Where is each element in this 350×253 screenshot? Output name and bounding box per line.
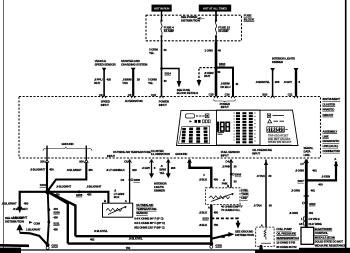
svg-text:B: B — [104, 199, 106, 203]
svg-text:TAN: TAN — [122, 81, 127, 85]
wire stub ground left 2 — [85, 146, 87, 160]
wire stub ground left 1 — [46, 146, 48, 160]
wire high beam branch right from S310 — [216, 68, 233, 96]
wire oil pressure from cluster — [265, 160, 267, 228]
svg-text:C4: C4 — [225, 159, 229, 163]
arrow from VSS — [102, 68, 106, 72]
wire .8 PPL/WHT VSS to cluster — [103, 70, 105, 96]
svg-text:C4 VIN B: C4 VIN B — [309, 217, 320, 221]
svg-text:DK BLU: DK BLU — [220, 85, 230, 89]
svg-text:DIMMER: DIMMER — [154, 189, 166, 193]
svg-text:.8 TAN: .8 TAN — [253, 203, 261, 207]
ALDL note — [323, 129, 341, 153]
ground G201 — [46, 243, 59, 249]
terminal C4 — [225, 159, 233, 163]
wire serial data from cluster C7 — [305, 160, 308, 228]
arrow dimmer wire 1 — [270, 68, 275, 72]
display caption lines — [268, 133, 292, 144]
ground G302 — [209, 242, 222, 248]
svg-text:400: 400 — [318, 182, 323, 186]
svg-text:ALTERNATOR: ALTERNATOR — [125, 99, 144, 103]
label .8 ORN/WHT on dashed branch — [204, 70, 221, 78]
label 3 ORN/YEL 30 lower — [148, 78, 167, 85]
arrow illumination 2 — [166, 173, 171, 178]
svg-text:.8 BLK/YEL: .8 BLK/YEL — [94, 229, 108, 233]
svg-text:.8 BLK: .8 BLK — [199, 210, 208, 214]
terminal marks ground pair — [40, 160, 88, 164]
label .8 ORN 400 branch — [318, 174, 330, 186]
svg-text:420: 420 — [107, 77, 112, 81]
svg-text:CLUSTER: CLUSTER — [323, 102, 337, 106]
scan margin bottom-left corner — [0, 248, 21, 253]
arrow dashed branch — [197, 80, 202, 87]
wire fuel sensor from C4 — [230, 160, 232, 188]
svg-text:S209: S209 — [53, 211, 60, 215]
svg-text:750: 750 — [126, 246, 131, 250]
node S201 junction blob — [40, 183, 51, 194]
ECM pin row 2 — [299, 222, 322, 226]
label .8 BLK/WHT 450 wire1 — [30, 167, 54, 171]
speedometer digits 188 — [217, 122, 229, 132]
see fuse block details note — [177, 88, 199, 95]
label SPEED INPUT — [101, 100, 110, 107]
bargraph column C — [249, 112, 253, 143]
label 40 ohms note — [221, 204, 243, 212]
svg-text:S211: S211 — [53, 221, 60, 225]
svg-text:C15: C15 — [209, 92, 214, 96]
hot in run header box — [152, 5, 172, 12]
svg-text:C8: C8 — [124, 159, 128, 163]
label .8 ORN 461 mid — [291, 188, 315, 192]
wire dashed branch ground dist — [211, 218, 238, 223]
bargraph ticks right — [254, 113, 256, 141]
wire temp sensor right from cluster — [129, 160, 131, 203]
terminal C16 — [225, 92, 235, 98]
svg-text:906: 906 — [79, 160, 84, 164]
label .8 BLK/YEL 452 — [90, 229, 108, 241]
wire 3 ORN/YEL from fuse4 to cluster C12 — [161, 42, 163, 96]
svg-text:450: 450 — [53, 215, 58, 219]
wire S201 chain down — [48, 192, 49, 244]
svg-text:.8 BLK: .8 BLK — [199, 178, 208, 182]
terminal C8 temp — [124, 159, 131, 163]
brace under C15 C16 — [214, 99, 236, 102]
label .8 BRN/YEL 906 — [159, 164, 175, 175]
svg-text:OIL PRESSURE: OIL PRESSURE — [276, 231, 296, 235]
arrow see ground distribution upper — [17, 207, 22, 213]
wire S201 right horizontal to temp sensor — [48, 192, 109, 203]
fuse block dashed box — [146, 15, 242, 41]
label .8 BLK/WHT above right horiz — [55, 184, 71, 196]
label .8 LT GRN/BLK 926 — [106, 168, 137, 172]
scan margin bottom-mid-right — [255, 250, 301, 253]
label 3 ORN/YEL 30 upper — [149, 48, 167, 55]
bargraph ticks left — [233, 113, 235, 140]
svg-text:S206: S206 — [76, 193, 83, 197]
label IGNITION INPUT under C12 — [159, 100, 170, 107]
terminal C11a — [288, 92, 298, 98]
svg-text:0123456: 0123456 — [267, 127, 285, 132]
node S206 — [76, 190, 83, 196]
svg-text:1 BLK/WHT: 1 BLK/WHT — [26, 228, 41, 232]
temp sensor pins B A — [104, 199, 128, 203]
fuel gauge segmented columns — [179, 126, 210, 144]
svg-text:450: 450 — [214, 178, 219, 182]
label GROUND left with brace — [43, 142, 92, 151]
svg-text:750: 750 — [214, 223, 219, 227]
svg-text:1 ORN: 1 ORN — [205, 49, 213, 53]
page border bottom — [0, 249, 350, 251]
fuse F13 value label — [218, 25, 230, 33]
telltale icon right 1 — [267, 114, 284, 117]
svg-text:S201: S201 — [40, 183, 47, 187]
wire 1 ORN from fuse13 — [215, 42, 218, 96]
svg-text:G302: G302 — [215, 243, 222, 247]
wire cluster ground 1 down to S201 — [46, 162, 48, 191]
see power distribution arrow — [197, 17, 202, 20]
interior lights dimmer note lower — [154, 181, 168, 192]
svg-text:A8: A8 — [299, 222, 303, 226]
node S310 lower — [302, 202, 316, 206]
fuse block label — [244, 14, 255, 22]
terminal C13 — [150, 160, 154, 163]
label .8 BLK/WHT after S206 — [86, 184, 101, 196]
svg-text:LINE: LINE — [304, 153, 310, 157]
scan margin bottom-right — [299, 248, 350, 253]
svg-text:S213: S213 — [202, 217, 209, 221]
svg-text:YEL: YEL — [149, 51, 155, 55]
svg-text:S306: S306 — [235, 173, 242, 177]
svg-text:SENSOR: SENSOR — [136, 211, 148, 215]
svg-text:INPUT: INPUT — [159, 103, 167, 107]
svg-text:.8 BLK: .8 BLK — [199, 223, 208, 227]
svg-text:WHT: WHT — [94, 81, 101, 85]
arrow from below ground distribution — [17, 225, 22, 233]
svg-text:BLOCK DETAILS: BLOCK DETAILS — [177, 91, 199, 95]
wire S201 left then down to ground dist arrow — [20, 192, 48, 208]
svg-text:DISTRIBUTION: DISTRIBUTION — [5, 219, 24, 223]
label .8 LT GRN/BLK left wire — [114, 188, 125, 199]
svg-text:461: 461 — [311, 188, 316, 192]
svg-text:INSTRUMENT: INSTRUMENT — [323, 97, 341, 101]
fuel tank sender symbol — [209, 193, 234, 201]
svg-text:.8 BLK/YEL: .8 BLK/YEL — [129, 236, 143, 240]
svg-text:1 BLK/WHT: 1 BLK/WHT — [13, 215, 28, 219]
label CLUSTER ILLUMINATION — [151, 149, 170, 156]
label .8 PPL/WHT 420 — [94, 77, 111, 84]
svg-text:852 OHMS 132° F (56° C): 852 OHMS 132° F (56° C) — [134, 225, 164, 229]
svg-text:LINE: LINE — [323, 134, 329, 138]
gauge icon dashes row — [196, 115, 205, 117]
label SERIAL DATA LINE — [304, 146, 314, 157]
svg-text:YEL: YEL — [159, 171, 165, 175]
telltale icon right 2 warning triangle — [268, 120, 284, 123]
label .8 BLK/WHT 450 left branch — [2, 202, 29, 206]
svg-text:15 AMP: 15 AMP — [164, 29, 174, 33]
svg-text:GROUND: GROUND — [62, 142, 74, 146]
fuel pump note — [276, 227, 298, 249]
thermistor symbol — [106, 206, 127, 214]
svg-text:DIMMER: DIMMER — [272, 60, 284, 64]
svg-text:S307: S307 — [298, 179, 305, 183]
svg-text:MEASURE RESISTANCE: MEASURE RESISTANCE — [315, 244, 346, 248]
interior lights dimmer label — [272, 57, 295, 65]
label .8 BRN/DK BLU 41 — [220, 82, 238, 89]
node S308 — [121, 178, 141, 182]
terminal C7 — [300, 160, 308, 167]
wire fuse13 inside block — [215, 12, 217, 22]
svg-text:.8 TAN: .8 TAN — [257, 174, 265, 178]
node S211 — [29, 221, 60, 226]
svg-text:CIRCUIT: CIRCUIT — [323, 113, 334, 117]
ECM note — [315, 227, 346, 248]
instrument cluster printed circuit note — [323, 97, 341, 117]
terminal F — [188, 160, 206, 178]
svg-text:COM: COM — [34, 221, 41, 225]
svg-text:S310: S310 — [309, 202, 316, 206]
svg-text:OUTSIDE AIR TEMPERATURE: OUTSIDE AIR TEMPERATURE — [113, 150, 151, 154]
terminal C12 — [151, 93, 163, 98]
label .8 BLK 450 lower — [199, 210, 219, 214]
wire cluster ground thick elbow — [190, 160, 212, 188]
svg-text:.8 ORN: .8 ORN — [291, 188, 300, 192]
node S314 — [160, 67, 171, 75]
arrow illumination 1 — [149, 173, 154, 178]
svg-text:ASSEMBLY: ASSEMBLY — [323, 129, 338, 133]
pump ground dot and arrow — [259, 245, 263, 253]
wire branch S314 to fuse details arrow — [162, 69, 180, 82]
outside air temperature sensor note — [134, 203, 165, 230]
node S310 top — [215, 62, 226, 69]
page border left — [3, 0, 5, 253]
svg-text:926: 926 — [132, 168, 137, 172]
wire cluster ground 2 elbow to S201 — [48, 162, 86, 191]
wire branch to ALDL — [306, 162, 336, 181]
fuel pump sender dashed box — [256, 227, 274, 247]
label .8 BRN TAN 25 — [122, 77, 140, 84]
terminal A15 — [166, 160, 170, 163]
svg-text:450: 450 — [88, 168, 93, 172]
svg-text:B: B — [227, 184, 229, 188]
label OUTSIDE AIR TEMPERATURE INPUT — [107, 150, 151, 158]
fuse F13 symbol — [215, 20, 217, 38]
speedometer units label — [218, 133, 225, 135]
label 8 BRN/YEL 908 — [256, 80, 280, 84]
wire .8 BRN/YEL dimmer — [272, 71, 274, 96]
node S213 — [202, 217, 212, 221]
svg-text:.8 ORN: .8 ORN — [295, 169, 304, 173]
svg-text:BLOCK: BLOCK — [244, 17, 255, 21]
svg-text:450: 450 — [49, 168, 54, 172]
odometer digit boxes — [267, 127, 288, 133]
svg-text:CONNECTOR: CONNECTOR — [323, 149, 341, 153]
svg-text:DIAGNOSTIC: DIAGNOSTIC — [323, 139, 341, 143]
svg-text:.8 BLK/WHT: .8 BLK/WHT — [13, 207, 28, 211]
svg-text:DLC WIRE: DLC WIRE — [309, 222, 322, 226]
svg-text:3.5 K OHMS 80° F (26° C): 3.5 K OHMS 80° F (26° C) — [134, 221, 165, 225]
node S209 — [47, 207, 60, 215]
svg-text:S310: S310 — [219, 62, 226, 66]
svg-text:HOT AT ALL TIMES: HOT AT ALL TIMES — [203, 7, 227, 11]
display center panel box — [217, 110, 261, 145]
svg-text:UNIT: UNIT — [241, 196, 248, 200]
svg-text:.8 BLK/WHT: .8 BLK/WHT — [2, 202, 17, 206]
arrow dashed ground dist — [236, 223, 241, 229]
svg-text:S308: S308 — [134, 178, 141, 182]
svg-text:LINK (ALDL): LINK (ALDL) — [323, 144, 339, 148]
page border right — [345, 0, 347, 253]
hot at all times header box — [199, 5, 231, 12]
wire cluster illumination .3 GRY — [151, 160, 153, 174]
svg-text:CHARGING SYSTEM: CHARGING SYSTEM — [121, 63, 148, 67]
node S307 — [298, 179, 308, 183]
svg-text:.8 BLK/WHT: .8 BLK/WHT — [56, 184, 71, 188]
bargraph column B — [242, 112, 246, 143]
svg-text:INPUT: INPUT — [221, 105, 229, 109]
svg-text:.8 GRY: .8 GRY — [284, 80, 293, 84]
wire fuse4 inside block — [161, 12, 163, 22]
gauge icon row2 glyphs — [190, 120, 211, 123]
label OIL PRESSURE INPUT — [252, 148, 272, 155]
label 3 PNK 30 — [222, 165, 237, 169]
svg-text:INPUT: INPUT — [252, 151, 260, 155]
svg-text:450: 450 — [24, 202, 29, 206]
bargraph column A — [236, 112, 240, 143]
svg-text:20 AMP: 20 AMP — [218, 29, 228, 33]
wire fuel ground below tank — [210, 205, 212, 244]
see ground distribution note right — [235, 230, 254, 238]
fuse F4 symbol — [160, 20, 162, 38]
label 1 ORN 40 — [205, 49, 222, 53]
wire S201 diagonal to W1 vertical — [48, 192, 76, 236]
inline connector tick on serial wire — [304, 195, 309, 196]
label .8 GRY 8 — [284, 80, 301, 84]
svg-text:C16: C16 — [225, 92, 230, 96]
svg-text:0.4 K OHMS 90° F (0° C): 0.4 K OHMS 90° F (0° C) — [134, 217, 163, 221]
gauge icon rounded rect top-left — [186, 114, 195, 118]
svg-text:70 OHMS FULL: 70 OHMS FULL — [221, 208, 240, 212]
fuse F4 value label — [164, 25, 174, 33]
svg-text:G201: G201 — [51, 243, 58, 247]
svg-text:16 OHMS 3 PSI: 16 OHMS 3 PSI — [276, 240, 295, 244]
wire W2 horizontal 750 to G302 — [68, 242, 212, 244]
svg-text:S314: S314 — [165, 72, 172, 76]
svg-text:206: 206 — [40, 160, 45, 164]
label 1 BLK/WHT 450 mid — [13, 215, 59, 219]
svg-text:450: 450 — [53, 228, 58, 232]
svg-text:.8 ORN: .8 ORN — [321, 174, 330, 178]
arrow see ground distribution right — [228, 232, 234, 237]
svg-text:750: 750 — [221, 235, 226, 239]
ECM box — [301, 227, 314, 244]
label POWER INPUT — [220, 102, 231, 109]
svg-text:DISTRIBUTION: DISTRIBUTION — [181, 19, 200, 23]
wire illumination 2 .8 BRN/YEL — [167, 160, 169, 174]
see power distribution note — [181, 15, 200, 22]
svg-text:D4: D4 — [121, 178, 125, 182]
wire dashed branch left from S310 — [199, 68, 216, 80]
svg-text:B10: B10 — [262, 92, 267, 96]
label .8 ORN 461 top — [295, 169, 317, 173]
wire S201 diagonal to W2 vertical — [48, 192, 68, 244]
ECM pin row 1 — [301, 217, 320, 221]
svg-text:906: 906 — [171, 166, 176, 170]
label FUEL SENSOR INPUT — [221, 150, 241, 157]
label .8 BLK/WHT 450 wire2 — [67, 168, 94, 172]
svg-text:ILLUMINATION: ILLUMINATION — [151, 152, 170, 156]
gauge icon small square — [205, 114, 209, 118]
svg-text:C11: C11 — [288, 92, 293, 96]
svg-text:.3 PNK: .3 PNK — [222, 165, 231, 169]
wire .8 BRN alternator to cluster — [132, 70, 134, 96]
fuel tank unit dashed box — [206, 188, 241, 205]
svg-text:.8 LT GRN/BLK: .8 LT GRN/BLK — [106, 168, 126, 172]
node S306 — [230, 173, 242, 177]
svg-text:INPUT: INPUT — [221, 153, 229, 157]
svg-text:80 OHMS 90 PSI: 80 OHMS 90 PSI — [276, 245, 296, 249]
arrow to fuse block details — [177, 81, 182, 88]
pump sender symbol — [261, 227, 271, 243]
svg-text:908: 908 — [275, 80, 280, 84]
wire diagonal to see ground arrow — [212, 235, 229, 239]
fuel tank unit note — [241, 188, 249, 200]
label .8 TAN 30 lower — [253, 203, 272, 207]
wire .8 GRY dimmer 2 — [295, 71, 297, 96]
svg-text:CONTROL: CONTROL — [315, 231, 329, 235]
svg-text:YEL: YEL — [148, 81, 154, 85]
label .8 BLK 450 upper — [199, 178, 219, 182]
svg-text:.3 GRY: .3 GRY — [142, 166, 151, 170]
ALDL terminal A — [334, 157, 338, 166]
svg-text:DISTRIBUTION: DISTRIBUTION — [235, 233, 254, 237]
starter and charging system label — [121, 59, 148, 66]
svg-text:.8 ORN: .8 ORN — [289, 211, 298, 215]
svg-text:452: 452 — [90, 237, 95, 241]
svg-text:SENDER/SWITCH: SENDER/SWITCH — [276, 236, 298, 240]
see ground distribution note left — [5, 216, 24, 224]
cluster display unit outline (trapezoid) — [177, 110, 299, 145]
svg-text:.8 BLK/WHT: .8 BLK/WHT — [86, 184, 101, 188]
svg-text:.8 BRN/YEL: .8 BRN/YEL — [256, 80, 271, 84]
svg-text:PRINTED: PRINTED — [323, 108, 335, 112]
vehicle speed sensor label — [95, 59, 117, 66]
arrow from charging system — [131, 68, 136, 72]
terminal oil — [264, 161, 268, 166]
label .3 GRY 8 — [142, 166, 156, 170]
label .8 BLK/YEL 750 — [126, 236, 143, 250]
wire W1 horizontal 452 to fuel ground — [75, 235, 211, 237]
svg-text:INPUT: INPUT — [101, 103, 109, 107]
terminal C6 — [128, 93, 135, 98]
label .8 ORN 461 low — [289, 211, 314, 215]
wire bottom-left thick bar — [0, 244, 29, 247]
outside air temp sensor box — [103, 203, 133, 217]
label 1 BLK/WHT 450 low — [26, 228, 58, 232]
instrument cluster dashed box — [19, 97, 321, 159]
arrow dimmer wire 2 — [294, 68, 299, 72]
svg-text:.8 BLK/WHT: .8 BLK/WHT — [30, 167, 45, 171]
svg-text:GROUND: GROUND — [175, 152, 187, 156]
terminal B10 — [262, 92, 274, 98]
label .8 TAN 30 upper — [257, 174, 272, 178]
label PNK 30 lower — [222, 178, 237, 185]
label .8 BLK 750 — [199, 223, 219, 227]
svg-text:450: 450 — [87, 193, 92, 197]
svg-text:FUEL PUMP: FUEL PUMP — [276, 227, 292, 231]
svg-text:461: 461 — [309, 211, 314, 215]
terminal C15 — [209, 92, 218, 98]
svg-text:SPEED SENSOR: SPEED SENSOR — [95, 63, 117, 67]
